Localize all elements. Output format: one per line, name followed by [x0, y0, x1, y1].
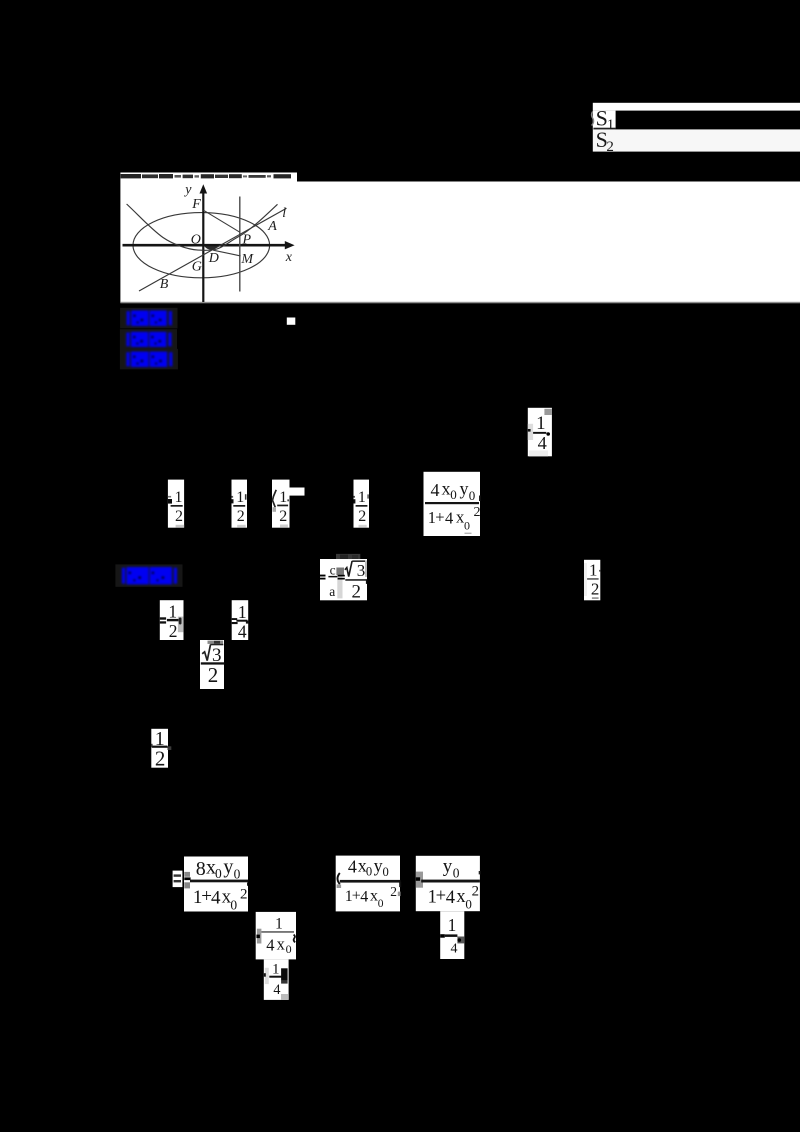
patch 1/2 left	[151, 728, 171, 770]
svg-text:l: l	[282, 206, 286, 221]
blue label zhuanti	[120, 329, 177, 349]
svg-text:B: B	[160, 277, 169, 292]
svg-text:0: 0	[469, 488, 476, 503]
svg-text:1: 1	[536, 413, 545, 434]
svg-text:0: 0	[230, 898, 237, 913]
svg-text:2: 2	[472, 884, 479, 900]
svg-text:8: 8	[196, 858, 206, 880]
svg-text:0: 0	[383, 865, 389, 879]
svg-text:y: y	[460, 479, 469, 499]
patch 4x0y0 over 1+4x0^2	[424, 472, 481, 536]
patch =1/4 row600	[232, 600, 249, 642]
svg-text:4: 4	[446, 888, 455, 908]
patch =8x0y0/(1+4x0^2)	[173, 856, 249, 912]
svg-text:2: 2	[591, 580, 600, 599]
patch sqrt3 over 2	[200, 640, 225, 689]
svg-text:4: 4	[348, 857, 357, 877]
svg-text:x: x	[370, 888, 378, 905]
svg-text:0: 0	[464, 518, 470, 532]
svg-text:1: 1	[607, 117, 615, 133]
svg-text:1: 1	[175, 489, 183, 506]
svg-text:O: O	[191, 232, 201, 247]
svg-text:F: F	[191, 197, 201, 212]
svg-text:1: 1	[448, 915, 457, 935]
svg-text:y: y	[183, 183, 192, 198]
svg-text:D: D	[208, 251, 219, 266]
svg-text:1: 1	[236, 489, 244, 506]
patch =1/2 (d)	[354, 480, 370, 528]
svg-text:1: 1	[238, 602, 247, 622]
patch sqrt(1/2) (c)	[272, 480, 305, 528]
patch =y0/(1+4x0^2)	[416, 856, 481, 912]
patch =1/4 dot	[440, 911, 464, 959]
svg-text:0: 0	[453, 865, 460, 880]
cut-off text smudges at top of figure	[121, 174, 291, 178]
svg-text:4: 4	[538, 433, 547, 453]
svg-text:4: 4	[431, 480, 440, 500]
svg-text:2: 2	[474, 505, 481, 520]
figure white panel	[120, 173, 297, 304]
svg-text:A: A	[267, 219, 277, 234]
svg-text:4: 4	[273, 982, 280, 998]
svg-text:2: 2	[279, 508, 287, 525]
svg-text:2: 2	[237, 508, 245, 525]
line l	[139, 208, 287, 291]
svg-text:4: 4	[211, 888, 221, 909]
svg-text:1: 1	[272, 962, 280, 978]
svg-text:G: G	[192, 259, 202, 274]
segment D-M	[213, 250, 240, 256]
svg-text:2: 2	[155, 746, 166, 770]
svg-text:4: 4	[360, 888, 368, 905]
svg-text:2: 2	[358, 508, 366, 525]
small white dot	[287, 318, 296, 325]
svg-text:4: 4	[238, 622, 247, 642]
svg-text:4: 4	[445, 508, 453, 527]
svg-text:2: 2	[208, 663, 219, 687]
S1/S2 fraction, top right	[592, 103, 800, 155]
svg-text:+: +	[436, 887, 446, 907]
svg-text:1: 1	[279, 489, 287, 506]
svg-text:M: M	[240, 252, 254, 267]
blue label fenxi	[120, 349, 178, 370]
svg-text:1: 1	[168, 601, 177, 621]
patch =1/2 row600	[160, 600, 184, 641]
svg-text:4: 4	[451, 942, 458, 957]
svg-text:x: x	[277, 934, 286, 953]
patch 1/4 bottom	[264, 959, 289, 1000]
svg-text:x: x	[442, 479, 451, 499]
svg-text:y: y	[443, 856, 453, 877]
patch 1/4 with comma	[528, 408, 552, 457]
patch =1/2 (a)	[168, 480, 184, 528]
segment F-P	[203, 210, 239, 232]
vertical line x=1	[239, 197, 241, 292]
svg-text:2: 2	[169, 621, 178, 641]
svg-text:+: +	[435, 508, 444, 527]
svg-text:1: 1	[358, 489, 366, 506]
patch (4x0y0/(1+4x0^2)	[336, 856, 402, 912]
figure labels	[160, 183, 293, 293]
parabola curve	[127, 204, 278, 250]
blue label jieda	[115, 564, 182, 586]
svg-text:2: 2	[390, 884, 397, 899]
svg-text:1: 1	[589, 561, 598, 580]
svg-text:0: 0	[366, 865, 372, 879]
patch 1/(4x0)	[256, 912, 296, 960]
svg-text:0: 0	[234, 866, 241, 881]
svg-text:2: 2	[175, 508, 183, 525]
svg-text:a: a	[329, 584, 335, 599]
svg-text:x: x	[285, 250, 293, 265]
shaded wedge at D	[204, 246, 217, 250]
svg-text:2: 2	[240, 887, 248, 903]
y-axis	[202, 190, 204, 302]
svg-text:1: 1	[275, 916, 283, 933]
patch 1/2 right	[584, 560, 600, 601]
svg-text:y: y	[223, 856, 233, 878]
svg-text:y: y	[374, 856, 383, 876]
svg-text:0: 0	[378, 898, 384, 910]
blue label kaodian	[120, 308, 177, 329]
x-axis	[123, 244, 289, 247]
ellipse	[133, 213, 270, 278]
svg-text:0: 0	[450, 487, 457, 502]
svg-text:P: P	[242, 232, 252, 247]
svg-text:4: 4	[266, 935, 274, 954]
svg-text:2: 2	[606, 139, 614, 155]
svg-text:0: 0	[215, 866, 222, 881]
svg-text:3: 3	[357, 561, 366, 580]
patch c/a = sqrt3/2	[320, 554, 368, 602]
svg-text:c: c	[330, 562, 336, 577]
patch =1/2 (b)	[232, 480, 248, 528]
svg-text:2: 2	[351, 581, 361, 602]
svg-text:0: 0	[286, 942, 292, 956]
